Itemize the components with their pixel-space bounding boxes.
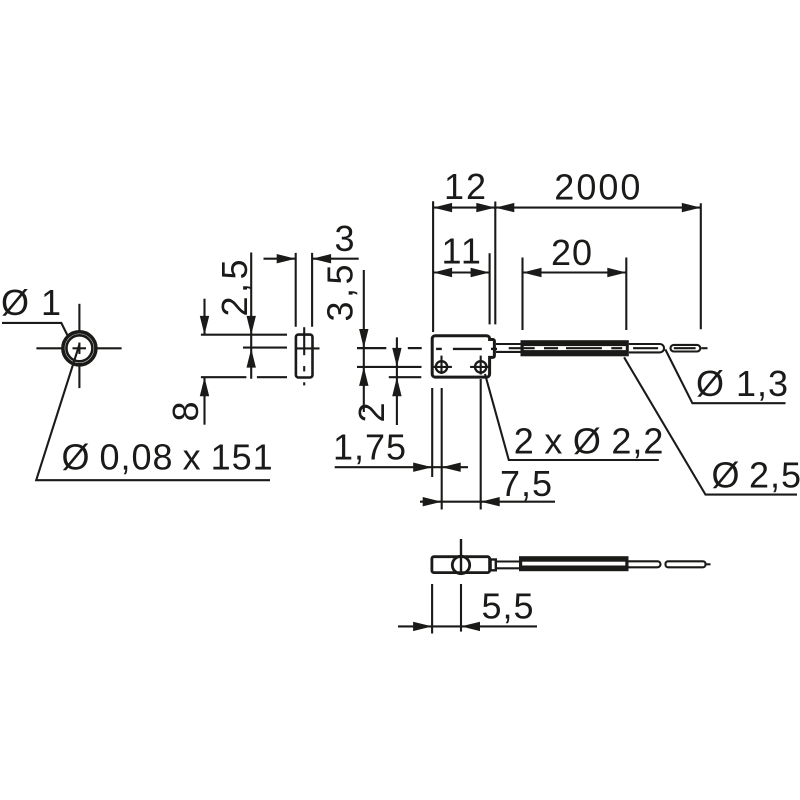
- svg-text:3: 3: [335, 218, 356, 259]
- svg-text:2: 2: [351, 401, 392, 422]
- svg-text:11: 11: [442, 231, 483, 272]
- svg-text:8: 8: [165, 400, 206, 421]
- svg-text:1,75: 1,75: [333, 427, 407, 468]
- svg-text:Ø 1: Ø 1: [1, 282, 62, 323]
- svg-text:2 x Ø 2,2: 2 x Ø 2,2: [514, 421, 665, 462]
- svg-text:5,5: 5,5: [482, 586, 535, 627]
- svg-text:20: 20: [551, 232, 593, 273]
- svg-text:12: 12: [444, 166, 488, 207]
- svg-text:Ø 2,5: Ø 2,5: [712, 455, 800, 496]
- svg-text:Ø 0,08 x 151: Ø 0,08 x 151: [62, 437, 274, 478]
- svg-text:2000: 2000: [554, 166, 642, 207]
- svg-text:3,5: 3,5: [319, 261, 360, 322]
- svg-text:7,5: 7,5: [500, 463, 553, 504]
- svg-text:2,5: 2,5: [214, 256, 255, 317]
- svg-text:Ø 1,3: Ø 1,3: [696, 363, 789, 404]
